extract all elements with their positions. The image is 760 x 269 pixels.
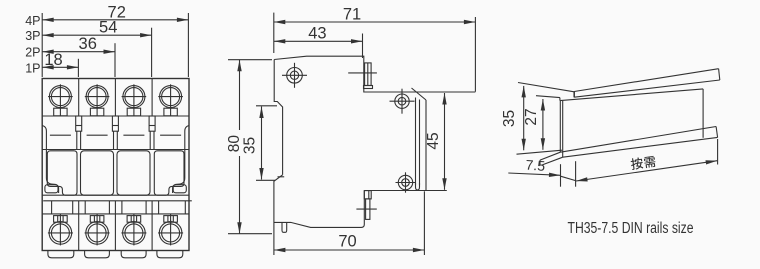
svg-text:45: 45 — [425, 132, 442, 149]
svg-text:4P: 4P — [25, 14, 40, 28]
svg-text:70: 70 — [338, 232, 356, 250]
svg-text:36: 36 — [79, 35, 97, 53]
svg-text:43: 43 — [308, 25, 326, 43]
svg-text:71: 71 — [343, 5, 361, 23]
svg-text:27: 27 — [523, 108, 540, 125]
svg-text:18: 18 — [44, 51, 62, 69]
svg-text:7.5: 7.5 — [525, 157, 546, 174]
svg-text:1P: 1P — [25, 61, 40, 75]
svg-text:35: 35 — [242, 137, 259, 154]
svg-text:54: 54 — [99, 19, 117, 37]
svg-text:2P: 2P — [25, 46, 40, 60]
svg-text:TH35-7.5 DIN rails size: TH35-7.5 DIN rails size — [568, 220, 694, 237]
svg-text:3P: 3P — [25, 29, 40, 43]
svg-text:35: 35 — [501, 110, 518, 127]
